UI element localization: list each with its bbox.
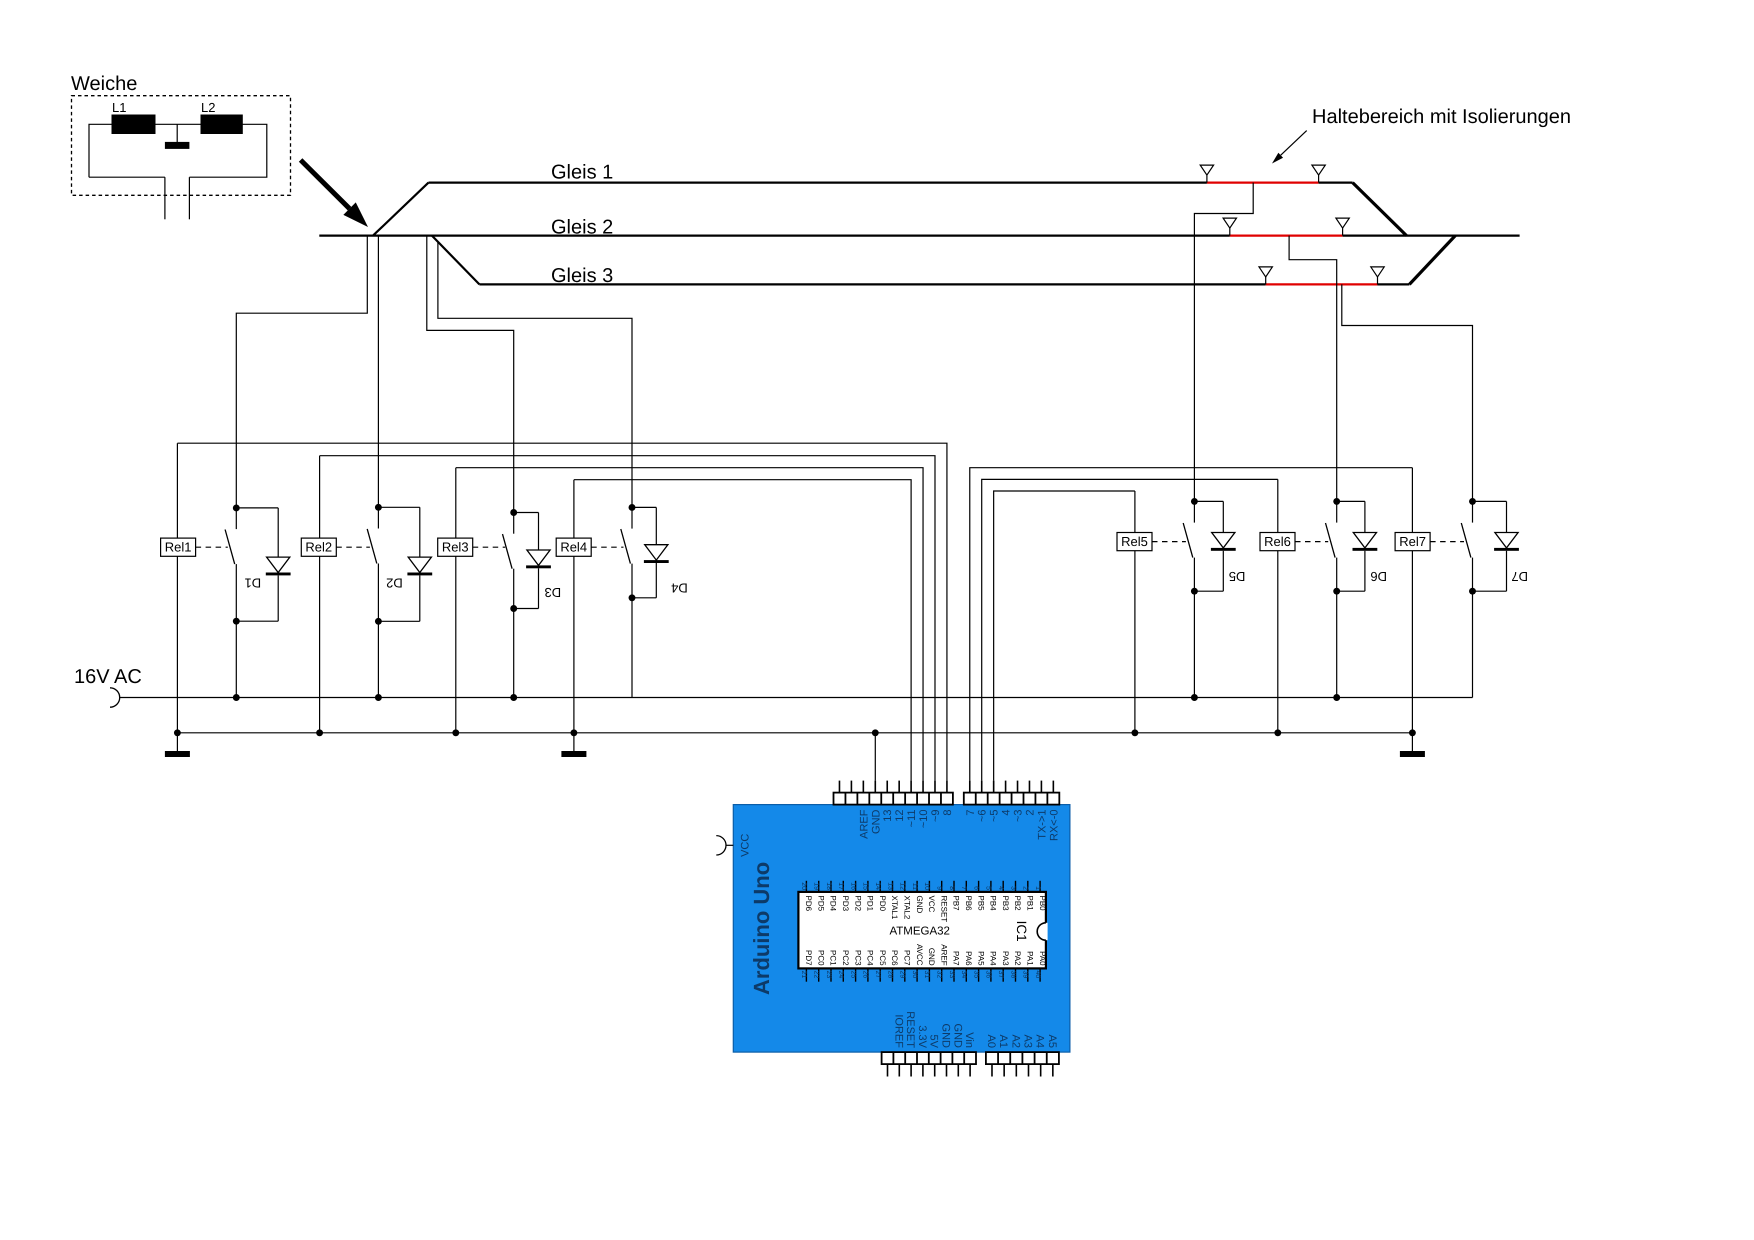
wire Rel4 switch to 16V bus — [631, 598, 633, 698]
svg-text:PD2: PD2 — [853, 896, 862, 912]
diode D1 — [236, 508, 290, 621]
annotation Haltebereich mit Isolierungen — [1312, 106, 1571, 128]
switch contact Rel1 — [225, 508, 236, 621]
relay coil box Rel1 — [161, 538, 196, 556]
pin label 3.3V (power) — [916, 1025, 928, 1048]
wire Gleis1 section to Rel5 — [1194, 183, 1253, 502]
pin label 13 — [882, 810, 894, 822]
svg-text:GND: GND — [940, 1024, 952, 1049]
actuator link Rel6 — [1295, 541, 1328, 543]
annotation arrow to Haltebereich — [1272, 131, 1307, 164]
wire Arduino pin 7 to Rel7 coil — [970, 468, 1413, 781]
node Rel7 coil on ground bus — [1409, 729, 1416, 736]
wire Arduino pin 8 to Rel1 coil — [177, 443, 947, 780]
wire Gleis2 section to Rel6 — [1289, 236, 1337, 502]
svg-text:RX<-0: RX<-0 — [1048, 810, 1060, 842]
svg-text:40: 40 — [1034, 971, 1041, 979]
svg-text:PB1: PB1 — [1026, 896, 1035, 912]
label Gleis 1 — [551, 161, 613, 183]
pin label A0 — [985, 1035, 997, 1048]
svg-text:Rel6: Rel6 — [1264, 534, 1291, 549]
switch contact Rel7 — [1461, 501, 1472, 591]
svg-text:Rel4: Rel4 — [560, 540, 587, 555]
svg-text:29: 29 — [899, 971, 906, 979]
svg-text:PC2: PC2 — [841, 950, 850, 966]
label IC1 — [1014, 921, 1029, 942]
svg-text:PD0: PD0 — [878, 896, 887, 912]
node GND pin on ground bus — [872, 729, 879, 736]
svg-text:PB2: PB2 — [1013, 896, 1022, 912]
label Gleis 3 — [551, 265, 613, 287]
actuator link Rel2 — [336, 546, 370, 548]
wire Arduino pin ~5 to Rel5 coil — [994, 491, 1135, 781]
wire Rel5 coil feed — [1134, 491, 1136, 733]
node Rel5 top — [1191, 498, 1198, 505]
pin label GND (power) — [940, 1024, 952, 1049]
label D3 — [544, 585, 561, 600]
svg-text:39: 39 — [1022, 971, 1029, 979]
svg-text:11: 11 — [911, 883, 918, 890]
svg-text:L2: L2 — [201, 100, 215, 115]
wire turnout exit 1 — [164, 177, 166, 219]
op-amp U1 body (IC1 ATMEGA32) — [798, 892, 1046, 969]
node Rel6 top — [1333, 498, 1340, 505]
svg-text:D7: D7 — [1511, 569, 1528, 584]
svg-text:10: 10 — [923, 882, 930, 890]
isolation gap symbol Gleis3 right — [1371, 267, 1384, 285]
svg-text:PB6: PB6 — [964, 896, 973, 912]
svg-text:A3: A3 — [1021, 1035, 1033, 1048]
turnout block title Weiche — [71, 73, 137, 95]
svg-text:~11: ~11 — [906, 810, 918, 828]
actuator link Rel7 — [1430, 541, 1464, 543]
label D7 — [1511, 569, 1528, 584]
svg-text:PC4: PC4 — [866, 950, 875, 966]
svg-text:~10: ~10 — [918, 810, 930, 829]
isolation gap symbol Gleis2 right — [1336, 218, 1349, 236]
svg-text:A4: A4 — [1034, 1035, 1046, 1048]
svg-text:D2: D2 — [386, 575, 403, 590]
pin label RESET (power) — [904, 1011, 916, 1048]
svg-text:13: 13 — [886, 882, 893, 890]
actuator link Rel1 — [196, 546, 228, 548]
svg-text:D5: D5 — [1229, 569, 1246, 584]
wire Arduino pin ~10 to Rel3 coil — [456, 468, 923, 781]
isolation gap symbol Gleis2 left — [1223, 218, 1236, 236]
svg-text:8: 8 — [948, 886, 955, 890]
label D6 — [1370, 569, 1387, 584]
wire Rel6 switch to 16V bus — [1336, 591, 1338, 697]
svg-text:Gleis 1: Gleis 1 — [551, 161, 613, 183]
svg-text:~6: ~6 — [977, 810, 989, 823]
wire L1-L2 link — [155, 123, 201, 125]
track Gleis 1 line — [429, 182, 1353, 184]
label D4 — [671, 580, 688, 595]
svg-text:D1: D1 — [244, 575, 261, 590]
svg-text:PC7: PC7 — [903, 950, 912, 966]
wire Rel2 coil feed — [319, 456, 321, 733]
svg-text:RESET: RESET — [904, 1011, 916, 1048]
wire Rel2 switch to 16V bus — [377, 621, 379, 697]
svg-text:28: 28 — [886, 971, 893, 979]
pin label 4 — [1001, 810, 1013, 816]
svg-text:A2: A2 — [1009, 1035, 1021, 1048]
node Rel5 on 16V bus — [1191, 694, 1198, 701]
label Arduino Uno — [749, 862, 774, 995]
svg-text:AVCC: AVCC — [915, 944, 924, 966]
svg-text:D4: D4 — [671, 580, 688, 595]
node Rel3 bottom — [510, 605, 517, 612]
svg-text:4: 4 — [997, 886, 1004, 890]
pin label Vin (power) — [963, 1032, 975, 1048]
svg-text:37: 37 — [997, 971, 1004, 979]
svg-text:7: 7 — [960, 886, 967, 890]
pin label A2 — [1009, 1035, 1021, 1048]
svg-text:3.3V: 3.3V — [916, 1025, 928, 1048]
svg-text:24: 24 — [837, 971, 844, 979]
bus ground return — [177, 732, 1412, 734]
svg-text:PD3: PD3 — [841, 896, 850, 912]
svg-text:Rel2: Rel2 — [305, 540, 332, 555]
svg-text:33: 33 — [948, 971, 955, 979]
pin label 2 — [1024, 810, 1036, 816]
svg-text:15: 15 — [862, 882, 869, 890]
terminal VCC — [716, 836, 733, 855]
node Rel4 top — [629, 504, 636, 511]
svg-text:~3: ~3 — [1013, 810, 1025, 823]
svg-text:32: 32 — [936, 971, 943, 979]
svg-text:18: 18 — [825, 882, 832, 890]
pin label A1 — [997, 1035, 1009, 1048]
pin label ~3 — [1013, 810, 1025, 823]
pin label ~5 — [989, 810, 1001, 823]
svg-text:PB0: PB0 — [1038, 896, 1047, 912]
svg-text:Rel7: Rel7 — [1399, 534, 1426, 549]
coil L1 — [112, 100, 155, 134]
wire Rel4 coil feed — [573, 480, 575, 733]
wire Gleis2 to Rel3 — [427, 236, 514, 513]
svg-text:19: 19 — [813, 882, 820, 890]
svg-text:GND: GND — [951, 1024, 963, 1049]
wire turnout common stub — [176, 124, 178, 142]
svg-text:16: 16 — [849, 882, 856, 890]
svg-text:PA1: PA1 — [1026, 951, 1035, 966]
pin label GND — [870, 809, 882, 834]
label 16V AC — [74, 666, 142, 688]
IC bottom pin numbers — [800, 971, 1041, 979]
svg-text:PC0: PC0 — [816, 950, 825, 966]
ground symbol middle — [561, 733, 586, 757]
svg-text:PD5: PD5 — [816, 896, 825, 912]
wire Arduino pin ~9 to Rel2 coil — [320, 456, 935, 781]
svg-text:4: 4 — [1001, 810, 1013, 816]
relay coil box Rel4 — [556, 538, 591, 556]
track Gleis 3 isolated section (red) — [1266, 283, 1378, 285]
pin label 12 — [894, 810, 906, 822]
svg-text:VCC: VCC — [927, 896, 936, 913]
track Gleis 3 right diagonal — [1409, 236, 1455, 285]
svg-text:16V AC: 16V AC — [74, 666, 142, 688]
svg-text:PC1: PC1 — [829, 950, 838, 966]
wire Rel1 switch to 16V bus — [235, 621, 237, 697]
node Rel3 coil on ground bus — [452, 729, 459, 736]
diode D7 — [1473, 501, 1519, 591]
wire Rel3 switch to 16V bus — [513, 609, 515, 698]
pin label ~10 — [918, 810, 930, 829]
coil L2 — [201, 100, 242, 134]
svg-text:7: 7 — [965, 810, 977, 816]
svg-text:PC6: PC6 — [890, 950, 899, 966]
svg-text:Rel1: Rel1 — [165, 540, 192, 555]
track Gleis 3 line — [479, 283, 1409, 285]
switch contact Rel2 — [367, 507, 378, 621]
isolation gap symbol Gleis1 right — [1312, 165, 1325, 183]
turnout common plate — [165, 142, 190, 149]
svg-text:IC1: IC1 — [1014, 921, 1029, 942]
label ATMEGA32 — [889, 925, 950, 937]
svg-text:PA0: PA0 — [1038, 951, 1047, 966]
relay coil box Rel2 — [301, 538, 336, 556]
svg-text:20: 20 — [800, 882, 807, 890]
svg-text:A1: A1 — [997, 1035, 1009, 1048]
node Rel7 top — [1469, 498, 1476, 505]
svg-text:25: 25 — [849, 971, 856, 979]
svg-text:Arduino Uno: Arduino Uno — [749, 862, 774, 995]
svg-text:PA6: PA6 — [964, 951, 973, 966]
node Rel2 bottom — [375, 618, 382, 625]
svg-text:PA4: PA4 — [989, 951, 998, 966]
svg-text:PB5: PB5 — [976, 896, 985, 912]
IC pin stubs — [806, 881, 1040, 982]
switch contact Rel3 — [503, 513, 514, 609]
node Rel1 bottom — [233, 618, 240, 625]
svg-text:9: 9 — [936, 886, 943, 890]
relay coil box Rel6 — [1260, 533, 1295, 551]
svg-text:~9: ~9 — [930, 810, 942, 823]
svg-text:12: 12 — [899, 882, 906, 890]
svg-text:5V: 5V — [928, 1035, 940, 1049]
connector digital pins 7-0 — [964, 781, 1060, 805]
diode D6 — [1337, 501, 1378, 591]
svg-text:27: 27 — [874, 971, 881, 979]
svg-text:PA7: PA7 — [952, 951, 961, 966]
svg-text:VCC: VCC — [740, 834, 752, 857]
wire turnout exit 2 — [188, 177, 190, 219]
svg-text:2: 2 — [1022, 886, 1029, 890]
svg-text:ATMEGA32: ATMEGA32 — [889, 925, 950, 937]
pin label ~6 — [977, 810, 989, 823]
actuator link Rel5 — [1152, 541, 1186, 543]
pin label ~9 — [930, 810, 942, 823]
svg-text:1: 1 — [1034, 886, 1041, 890]
annotation arrow to turnout junction — [301, 160, 368, 227]
pin label A3 — [1021, 1035, 1033, 1048]
wire Rel6 coil feed — [1277, 479, 1279, 732]
node Rel1 top — [233, 504, 240, 511]
pin label A4 — [1034, 1035, 1046, 1048]
svg-text:PD6: PD6 — [804, 896, 813, 912]
actuator link Rel4 — [591, 546, 623, 548]
wire Gleis2 junction to Rel1 — [236, 236, 367, 508]
svg-text:GND: GND — [915, 896, 924, 914]
svg-text:30: 30 — [911, 971, 918, 979]
svg-text:GND: GND — [927, 948, 936, 966]
svg-text:D3: D3 — [544, 585, 561, 600]
svg-text:17: 17 — [837, 882, 844, 890]
wire Gleis3-diagonal to Rel4 — [438, 242, 632, 508]
IC bottom pin labels — [804, 944, 1047, 966]
wire ground bus to Arduino GND pin — [874, 733, 876, 781]
diode D3 — [514, 513, 551, 609]
terminal 16V AC — [110, 688, 120, 707]
svg-text:6: 6 — [972, 886, 979, 890]
node Rel1 on 16V bus — [233, 694, 240, 701]
track Gleis 1 isolated section (red) — [1207, 182, 1319, 184]
turnout dashed enclosure — [72, 96, 291, 196]
track Gleis 2 line — [319, 235, 1519, 237]
wire Gleis2 to Rel2 — [377, 236, 379, 508]
track Gleis 3 left diagonal — [432, 236, 480, 285]
svg-text:2: 2 — [1024, 810, 1036, 816]
node Rel2 coil on ground bus — [316, 729, 323, 736]
svg-text:AREF: AREF — [939, 944, 948, 965]
isolation gap symbol Gleis3 left — [1259, 267, 1272, 285]
node Rel6 coil on ground bus — [1274, 729, 1281, 736]
svg-text:~5: ~5 — [989, 810, 1001, 823]
node Rel7 bottom — [1469, 588, 1476, 595]
svg-text:8: 8 — [942, 810, 954, 816]
svg-text:Rel3: Rel3 — [442, 540, 469, 555]
switch contact Rel6 — [1326, 501, 1337, 591]
label Gleis 2 — [551, 217, 613, 239]
svg-text:RESET: RESET — [939, 896, 948, 923]
svg-text:5: 5 — [985, 886, 992, 890]
node Rel6 on 16V bus — [1333, 694, 1340, 701]
svg-text:IOREF: IOREF — [892, 1014, 904, 1048]
svg-text:26: 26 — [862, 971, 869, 979]
svg-text:PC3: PC3 — [853, 950, 862, 966]
pin label IOREF (power) — [892, 1014, 904, 1048]
diode D4 — [632, 507, 669, 597]
svg-text:AREF: AREF — [858, 809, 870, 839]
svg-text:PD1: PD1 — [866, 896, 875, 912]
svg-text:Vin: Vin — [963, 1032, 975, 1048]
pin label TX-&gt;1 — [1036, 810, 1048, 840]
svg-text:12: 12 — [894, 810, 906, 822]
pin label GND (power) — [951, 1024, 963, 1049]
svg-text:D6: D6 — [1370, 569, 1387, 584]
connector analog pins A0-A5 — [986, 1052, 1059, 1076]
svg-text:34: 34 — [960, 971, 967, 979]
svg-text:TX->1: TX->1 — [1036, 810, 1048, 840]
svg-text:XTAL2: XTAL2 — [903, 896, 912, 920]
wire turnout bottom-left — [89, 176, 165, 178]
label D2 — [386, 575, 403, 590]
wire turnout top-left — [89, 124, 112, 177]
svg-text:22: 22 — [813, 971, 820, 979]
connector power pins — [882, 1052, 976, 1076]
switch contact Rel5 — [1183, 501, 1194, 591]
svg-text:14: 14 — [874, 882, 881, 890]
svg-text:35: 35 — [972, 971, 979, 979]
connector digital pins AREF-8 — [834, 781, 953, 805]
node Rel2 on 16V bus — [375, 694, 382, 701]
wire Rel5 switch to 16V bus — [1193, 591, 1195, 697]
isolation gap symbol Gleis1 left — [1200, 165, 1213, 183]
pin label 5V (power) — [928, 1035, 940, 1049]
label VCC — [740, 834, 752, 857]
ground symbol left — [165, 733, 190, 757]
pin label AREF — [858, 809, 870, 839]
wire Rel7 coil feed — [1411, 468, 1413, 733]
svg-text:PB3: PB3 — [1001, 896, 1010, 912]
wire Rel3 coil feed — [455, 468, 457, 733]
relay coil box Rel7 — [1395, 533, 1430, 551]
wire Arduino pin ~11 to Rel4 coil — [574, 480, 911, 781]
Arduino Uno board body — [733, 805, 1070, 1053]
node Rel6 bottom — [1333, 588, 1340, 595]
svg-text:GND: GND — [870, 809, 882, 834]
relay coil box Rel3 — [438, 538, 473, 556]
svg-text:21: 21 — [800, 971, 807, 979]
svg-text:XTAL1: XTAL1 — [890, 896, 899, 920]
svg-text:L1: L1 — [112, 100, 126, 115]
IC top pin labels — [804, 896, 1047, 923]
wire Rel1 coil feed — [176, 443, 178, 733]
wire Arduino pin ~6 to Rel6 coil — [982, 479, 1278, 780]
track Gleis 2 isolated section (red) — [1230, 235, 1343, 237]
relay coil box Rel5 — [1117, 533, 1152, 551]
svg-text:Rel5: Rel5 — [1121, 534, 1148, 549]
svg-text:PA2: PA2 — [1013, 951, 1022, 966]
svg-text:Haltebereich mit Isolierungen: Haltebereich mit Isolierungen — [1312, 106, 1571, 128]
label D1 — [244, 575, 261, 590]
label D5 — [1229, 569, 1246, 584]
svg-text:38: 38 — [1009, 971, 1016, 979]
svg-text:PB4: PB4 — [989, 896, 998, 912]
node Rel4 bottom — [629, 594, 636, 601]
svg-text:23: 23 — [825, 971, 832, 979]
node Rel2 top — [375, 504, 382, 511]
pin label 7 — [965, 810, 977, 816]
svg-text:Weiche: Weiche — [71, 73, 137, 95]
bus 16V AC — [120, 697, 1473, 699]
svg-text:PC5: PC5 — [878, 950, 887, 966]
svg-text:31: 31 — [923, 971, 930, 979]
pin label RX&lt;-0 — [1048, 810, 1060, 842]
node Rel3 top — [510, 509, 517, 516]
svg-text:A0: A0 — [985, 1035, 997, 1048]
node Rel5 bottom — [1191, 588, 1198, 595]
wire Gleis3 section to Rel7 — [1342, 284, 1473, 501]
svg-text:PB7: PB7 — [952, 896, 961, 912]
diode D5 — [1194, 501, 1235, 591]
svg-text:PA3: PA3 — [1001, 951, 1010, 966]
svg-text:3: 3 — [1009, 886, 1016, 890]
svg-text:PA5: PA5 — [976, 951, 985, 966]
node Rel3 on 16V bus — [510, 694, 517, 701]
wire Rel7 switch to 16V bus end — [1472, 591, 1474, 697]
ground symbol right — [1400, 733, 1425, 757]
IC top pin numbers — [800, 882, 1041, 890]
pin label A5 — [1046, 1035, 1058, 1048]
svg-text:A5: A5 — [1046, 1035, 1058, 1048]
actuator link Rel3 — [473, 546, 506, 548]
diode D2 — [378, 507, 432, 621]
track Gleis 1 right diagonal — [1353, 183, 1407, 236]
svg-text:36: 36 — [985, 971, 992, 979]
svg-text:13: 13 — [882, 810, 894, 822]
